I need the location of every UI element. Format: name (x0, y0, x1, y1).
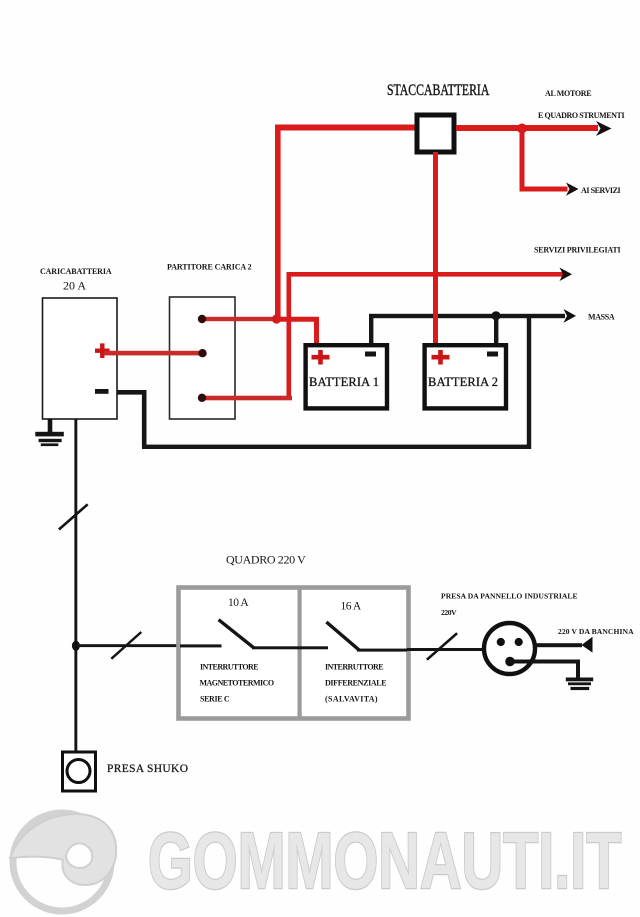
svg-text:PARTITORE CARICA 2: PARTITORE CARICA 2 (167, 263, 252, 272)
svg-text:INTERRUTTORE: INTERRUTTORE (325, 663, 384, 672)
battery charger U1 box (43, 298, 118, 419)
svg-text:220 V DA BANCHINA: 220 V DA BANCHINA (558, 627, 634, 636)
earth ground symbol (566, 678, 593, 691)
wire black battery2 minus riser (494, 316, 498, 344)
svg-text:DIFFERENZIALE: DIFFERENZIALE (325, 679, 387, 688)
disconnect slash on socket feed (427, 633, 457, 660)
wire red splitter top pin to red junction (202, 317, 278, 321)
arrowhead to AL MOTORE (596, 121, 612, 136)
disconnect slash on quadro feed (111, 632, 141, 659)
charger plus terminal (95, 343, 110, 358)
svg-text:MAGNETOTERMICO: MAGNETOTERMICO (200, 679, 275, 688)
wire red charger plus to splitter middle pin (104, 351, 203, 356)
breaker CB1 to CB2 wire (252, 646, 328, 649)
splitter pin 3 (198, 394, 206, 402)
wire red junction to battery1 elbow (277, 317, 320, 343)
wire red branch down to AI SERVIZI (520, 128, 525, 187)
wire black main drop from charger (74, 419, 77, 752)
wire black right riser to massa line (527, 316, 531, 449)
svg-text:GOMMONAUTI.IT: GOMMONAUTI.IT (148, 816, 621, 906)
wire black charger minus elbow (117, 390, 147, 447)
wire black massa line (369, 314, 565, 318)
breaker CB2 wire out (357, 649, 407, 652)
socket J1 industrial panel outlet (484, 623, 535, 674)
svg-text:PRESA DA PANNELLO INDUSTRIALE: PRESA DA PANNELLO INDUSTRIALE (441, 592, 578, 601)
battery B2 box (425, 345, 506, 408)
svg-text:E QUADRO STRUMENTI: E QUADRO STRUMENTI (538, 111, 625, 120)
svg-text:CARICABATTERIA: CARICABATTERIA (40, 267, 112, 276)
svg-text:BATTERIA 1: BATTERIA 1 (309, 375, 380, 389)
splitter pin 1 (198, 315, 206, 323)
wire red from switch to motor arrow (456, 125, 598, 131)
panel divider (298, 588, 302, 719)
wire red feed horizontal to staccabatteria (275, 125, 416, 131)
battery B1 box (306, 345, 387, 408)
wire black to quadro (76, 644, 179, 647)
charger ground symbol (35, 419, 64, 447)
svg-text:STACCABATTERIA: STACCABATTERIA (387, 81, 489, 98)
watermark logo gommonauti (10, 813, 116, 911)
arrowhead SERVIZI PRIVILEGIATI (560, 268, 573, 282)
svg-text:AI SERVIZI: AI SERVIZI (581, 186, 621, 195)
svg-text:10 A: 10 A (228, 597, 250, 609)
wire red staccabatteria down to battery 2 (433, 152, 438, 343)
svg-text:16 A: 16 A (341, 601, 363, 613)
wire red servizi privilegiati horizontal (288, 272, 563, 277)
battery1 minus terminal (365, 352, 376, 357)
svg-text:QUADRO 220 V: QUADRO 220 V (226, 553, 307, 567)
wire black bottom return under batteries (142, 445, 531, 449)
arrowhead 220V DA BANCHINA (582, 637, 593, 653)
wire red horizontal to AI SERVIZI arrow (520, 187, 568, 192)
breaker CB2 blade (326, 622, 359, 650)
battery1 plus terminal (312, 350, 330, 365)
battery2 minus terminal (487, 352, 498, 357)
wire red vertical servizi to partitore bottom (287, 272, 292, 396)
charge splitter U2 box (170, 297, 236, 419)
arrowhead AI SERVIZI (566, 183, 579, 196)
breaker CB1 blade (219, 620, 254, 648)
svg-text:AL MOTORE: AL MOTORE (545, 89, 592, 98)
panel box quadro 220V (179, 588, 409, 719)
junction dot red at charger feed (272, 314, 281, 323)
wire black quadro to socket (407, 648, 485, 651)
wall socket J2 presa shuko (63, 752, 96, 791)
wire red partitore bottom output horizontal (202, 396, 292, 401)
label INTERRUTTORE DIFFERENZIALE (SALVAVITA) (325, 663, 387, 704)
wire black battery1 minus riser (369, 316, 373, 344)
junction dot battery2 minus (491, 311, 500, 320)
breaker CB1 wire in (180, 644, 222, 647)
wire black socket to banchina arrow (533, 643, 582, 647)
junction dot motor branch (517, 124, 527, 134)
svg-text:MASSA: MASSA (588, 313, 615, 322)
splitter pin 2 (198, 349, 206, 357)
svg-text:220V: 220V (441, 608, 457, 617)
disconnect slash on main drop (59, 504, 88, 529)
svg-text:SERVIZI PRIVILEGIATI: SERVIZI PRIVILEGIATI (534, 246, 621, 255)
watermark text GOMMONAUTI.IT (148, 816, 621, 906)
battery2 plus terminal (432, 350, 450, 365)
svg-text:20 A: 20 A (63, 279, 87, 293)
arrowhead MASSA (564, 309, 577, 323)
wire black socket earth pin lead (510, 660, 580, 678)
charger minus terminal (95, 389, 109, 394)
svg-text:PRESA SHUKO: PRESA SHUKO (107, 763, 189, 775)
svg-text:(SALVAVITA): (SALVAVITA) (325, 695, 378, 704)
svg-text:INTERRUTTORE: INTERRUTTORE (200, 663, 259, 672)
battery switch S1 staccabatteria (417, 115, 454, 152)
junction dot at 220V tap (72, 641, 80, 651)
wire red vertical drop from feed corner to charger junction (275, 125, 281, 320)
svg-text:BATTERIA 2: BATTERIA 2 (428, 375, 499, 389)
label INTERRUTTORE MAGNETOTERMICO SERIE C (200, 663, 275, 704)
svg-text:SERIE C: SERIE C (200, 695, 230, 704)
